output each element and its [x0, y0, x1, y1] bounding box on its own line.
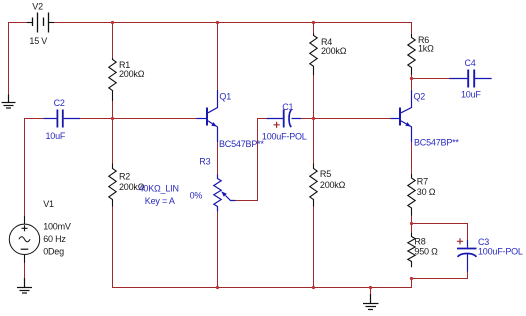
svg-text:100uF-POL: 100uF-POL — [478, 246, 523, 256]
svg-text:V2: V2 — [32, 1, 43, 11]
svg-text:40KΩ_LIN: 40KΩ_LIN — [139, 184, 179, 194]
svg-text:60 Hz: 60 Hz — [43, 234, 66, 244]
svg-text:1kΩ: 1kΩ — [418, 44, 434, 54]
svg-text:200kΩ: 200kΩ — [119, 69, 145, 79]
svg-text:C4: C4 — [465, 58, 476, 68]
svg-text:200kΩ: 200kΩ — [320, 180, 346, 190]
svg-text:R5: R5 — [320, 169, 331, 179]
svg-text:950 Ω: 950 Ω — [414, 246, 438, 256]
svg-text:0%: 0% — [190, 191, 203, 201]
svg-text:100uF-POL: 100uF-POL — [262, 132, 307, 142]
svg-text:Q1: Q1 — [219, 91, 231, 101]
svg-text:R7: R7 — [417, 177, 428, 187]
svg-text:Key = A: Key = A — [145, 196, 175, 206]
svg-text:Q2: Q2 — [414, 91, 426, 101]
svg-text:C1: C1 — [282, 102, 293, 112]
svg-text:100mV: 100mV — [43, 222, 71, 232]
svg-text:10uF: 10uF — [461, 90, 481, 100]
svg-text:0Deg: 0Deg — [43, 246, 64, 256]
svg-text:R3: R3 — [199, 157, 210, 167]
svg-text:200kΩ: 200kΩ — [321, 46, 347, 56]
svg-text:V1: V1 — [43, 199, 54, 209]
svg-text:10uF: 10uF — [46, 131, 66, 141]
svg-text:R8: R8 — [414, 237, 425, 247]
svg-text:15 V: 15 V — [29, 36, 47, 46]
svg-text:BC547BP**: BC547BP** — [219, 139, 264, 149]
svg-text:C2: C2 — [54, 98, 65, 108]
svg-text:BC547BP**: BC547BP** — [414, 138, 459, 148]
svg-text:30 Ω: 30 Ω — [417, 187, 436, 197]
svg-text:R2: R2 — [119, 172, 130, 182]
